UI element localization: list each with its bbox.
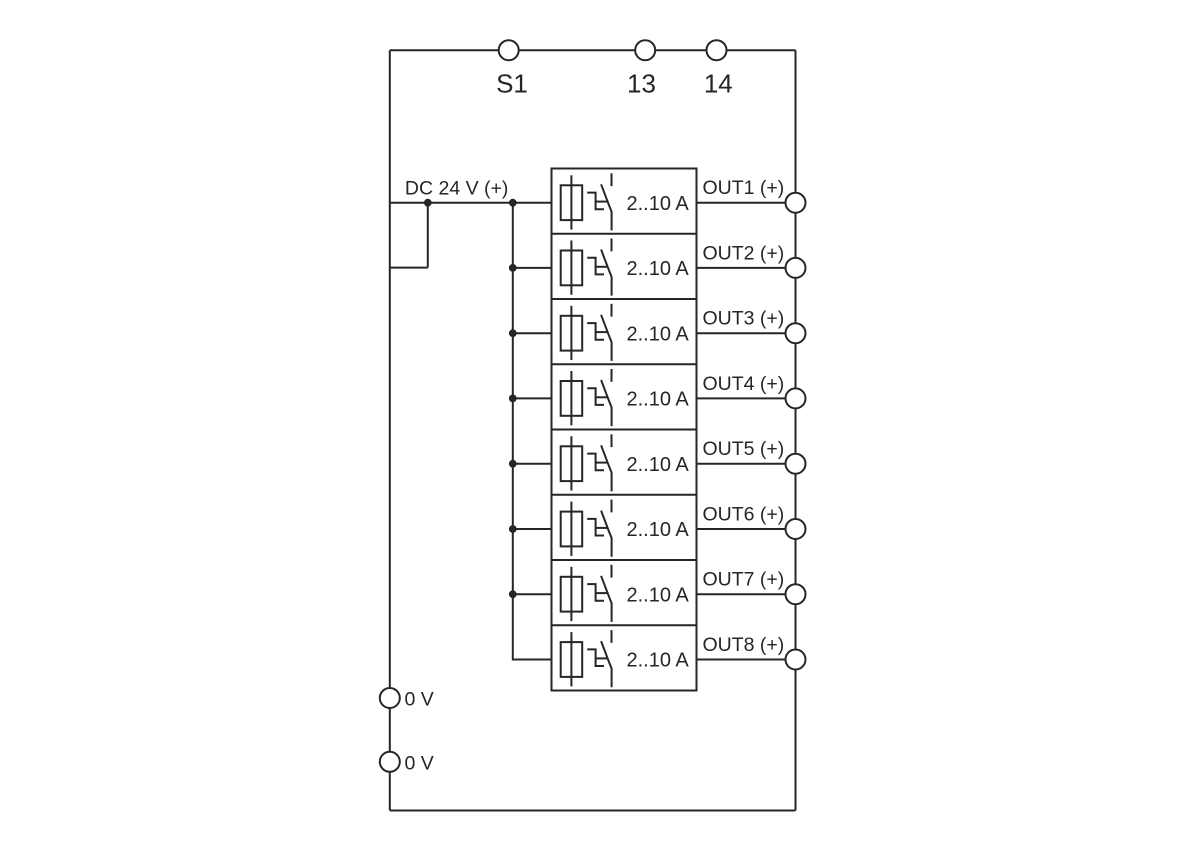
- wire: DC 24 V (+) supply bus: [390, 202, 552, 204]
- svg-text:OUT3 (+): OUT3 (+): [703, 308, 785, 330]
- svg-text:2..10 A: 2..10 A: [627, 258, 690, 280]
- breaker contact Q4 (latching switch, channel 4): [587, 369, 611, 426]
- svg-text:OUT7 (+): OUT7 (+): [703, 569, 785, 591]
- fuse F6 (electronic fuse element, channel 6): [561, 502, 583, 556]
- wire: outer frame left rail: [389, 50, 391, 810]
- wire: branch to channel 4: [513, 397, 552, 399]
- terminal 0 V: [380, 688, 400, 708]
- svg-text:OUT5 (+): OUT5 (+): [703, 438, 785, 460]
- wire: branch to channel 2: [513, 267, 552, 269]
- terminal 13: [635, 40, 655, 60]
- node: junction feeding channel 4: [509, 395, 517, 403]
- svg-text:OUT8 (+): OUT8 (+): [703, 634, 785, 656]
- terminal OUT2: [786, 258, 806, 278]
- fuse F8 (electronic fuse element, channel 8): [561, 632, 583, 686]
- node: junction feeding channel 3: [509, 329, 517, 337]
- wire: outer frame right rail: [795, 50, 797, 810]
- svg-text:2..10 A: 2..10 A: [627, 519, 690, 541]
- wire: output OUT3: [697, 332, 796, 334]
- svg-text:2..10 A: 2..10 A: [627, 650, 690, 672]
- wire: divider between channel 1 and 2: [552, 233, 697, 235]
- svg-text:S1: S1: [496, 68, 528, 98]
- wire: outer frame bottom rail: [390, 810, 796, 812]
- terminal OUT6: [786, 519, 806, 539]
- svg-text:2..10 A: 2..10 A: [627, 389, 690, 411]
- wire: output OUT1: [697, 202, 796, 204]
- wire: branch to channel 7: [513, 593, 552, 595]
- svg-text:DC 24 V (+): DC 24 V (+): [405, 178, 509, 200]
- svg-text:OUT2 (+): OUT2 (+): [703, 242, 785, 264]
- wire: divider between channel 5 and 6: [552, 494, 697, 496]
- terminal OUT5: [786, 454, 806, 474]
- breaker contact Q8 (latching switch, channel 8): [587, 630, 611, 687]
- wire: output OUT5: [697, 463, 796, 465]
- wire: input step horizontal segment: [390, 267, 428, 269]
- node: junction of step wire on +24V bus: [424, 199, 432, 207]
- svg-text:0 V: 0 V: [405, 752, 434, 774]
- terminal OUT4: [786, 388, 806, 408]
- breaker contact Q6 (latching switch, channel 6): [587, 500, 611, 557]
- wire: +24 V vertical distribution bus: [513, 203, 552, 660]
- terminal 14: [707, 40, 727, 60]
- wire: divider between channel 4 and 5: [552, 429, 697, 431]
- wire: divider between channel 3 and 4: [552, 363, 697, 365]
- svg-text:2..10 A: 2..10 A: [627, 454, 690, 476]
- svg-text:OUT1 (+): OUT1 (+): [703, 177, 785, 199]
- wire: output OUT6: [697, 528, 796, 530]
- wire: input step vertical segment: [427, 203, 429, 268]
- svg-text:OUT6 (+): OUT6 (+): [703, 503, 785, 525]
- node: junction feeding channel 7: [509, 590, 517, 598]
- svg-text:OUT4 (+): OUT4 (+): [703, 373, 785, 395]
- breaker contact Q7 (latching switch, channel 7): [587, 565, 611, 622]
- fuse F4 (electronic fuse element, channel 4): [561, 371, 583, 425]
- wire: outer frame top rail: [390, 49, 796, 51]
- svg-text:2..10 A: 2..10 A: [627, 584, 690, 606]
- wire: output OUT2: [697, 267, 796, 269]
- breaker contact Q3 (latching switch, channel 3): [587, 304, 611, 361]
- terminal OUT7: [786, 584, 806, 604]
- fuse F7 (electronic fuse element, channel 7): [561, 567, 583, 621]
- wire: output OUT7: [697, 593, 796, 595]
- svg-text:13: 13: [627, 68, 656, 98]
- terminal S1: [499, 40, 519, 60]
- svg-text:2..10 A: 2..10 A: [627, 193, 690, 215]
- terminal OUT8: [786, 650, 806, 670]
- wire: divider between channel 2 and 3: [552, 298, 697, 300]
- svg-text:0 V: 0 V: [405, 689, 434, 711]
- breaker contact Q5 (latching switch, channel 5): [587, 434, 611, 491]
- fuse F1 (electronic fuse element, channel 1): [561, 175, 583, 229]
- terminal OUT1: [786, 193, 806, 213]
- fuse F5 (electronic fuse element, channel 5): [561, 436, 583, 490]
- wire: branch to channel 3: [513, 332, 552, 334]
- fuse F3 (electronic fuse element, channel 3): [561, 306, 583, 360]
- wire: branch to channel 5: [513, 463, 552, 465]
- wire: branch to channel 6: [513, 528, 552, 530]
- wire: output OUT8: [697, 659, 796, 661]
- wire: output OUT4: [697, 397, 796, 399]
- node: junction feeding channel 6: [509, 525, 517, 533]
- breaker contact Q1 (latching switch, channel 1): [587, 173, 611, 230]
- breaker contact Q2 (latching switch, channel 2): [587, 239, 611, 296]
- node: junction feeding channel 2: [509, 264, 517, 272]
- node: junction of distribution bus on +24V bus: [509, 199, 517, 207]
- wire: divider between channel 7 and 8: [552, 624, 697, 626]
- node: junction feeding channel 5: [509, 460, 517, 468]
- channel block outline (8-channel breaker module): [552, 169, 697, 691]
- terminal 0 V: [380, 752, 400, 772]
- wire: divider between channel 6 and 7: [552, 559, 697, 561]
- svg-text:2..10 A: 2..10 A: [627, 323, 690, 345]
- fuse F2 (electronic fuse element, channel 2): [561, 241, 583, 295]
- terminal OUT3: [786, 323, 806, 343]
- svg-text:14: 14: [704, 68, 733, 98]
